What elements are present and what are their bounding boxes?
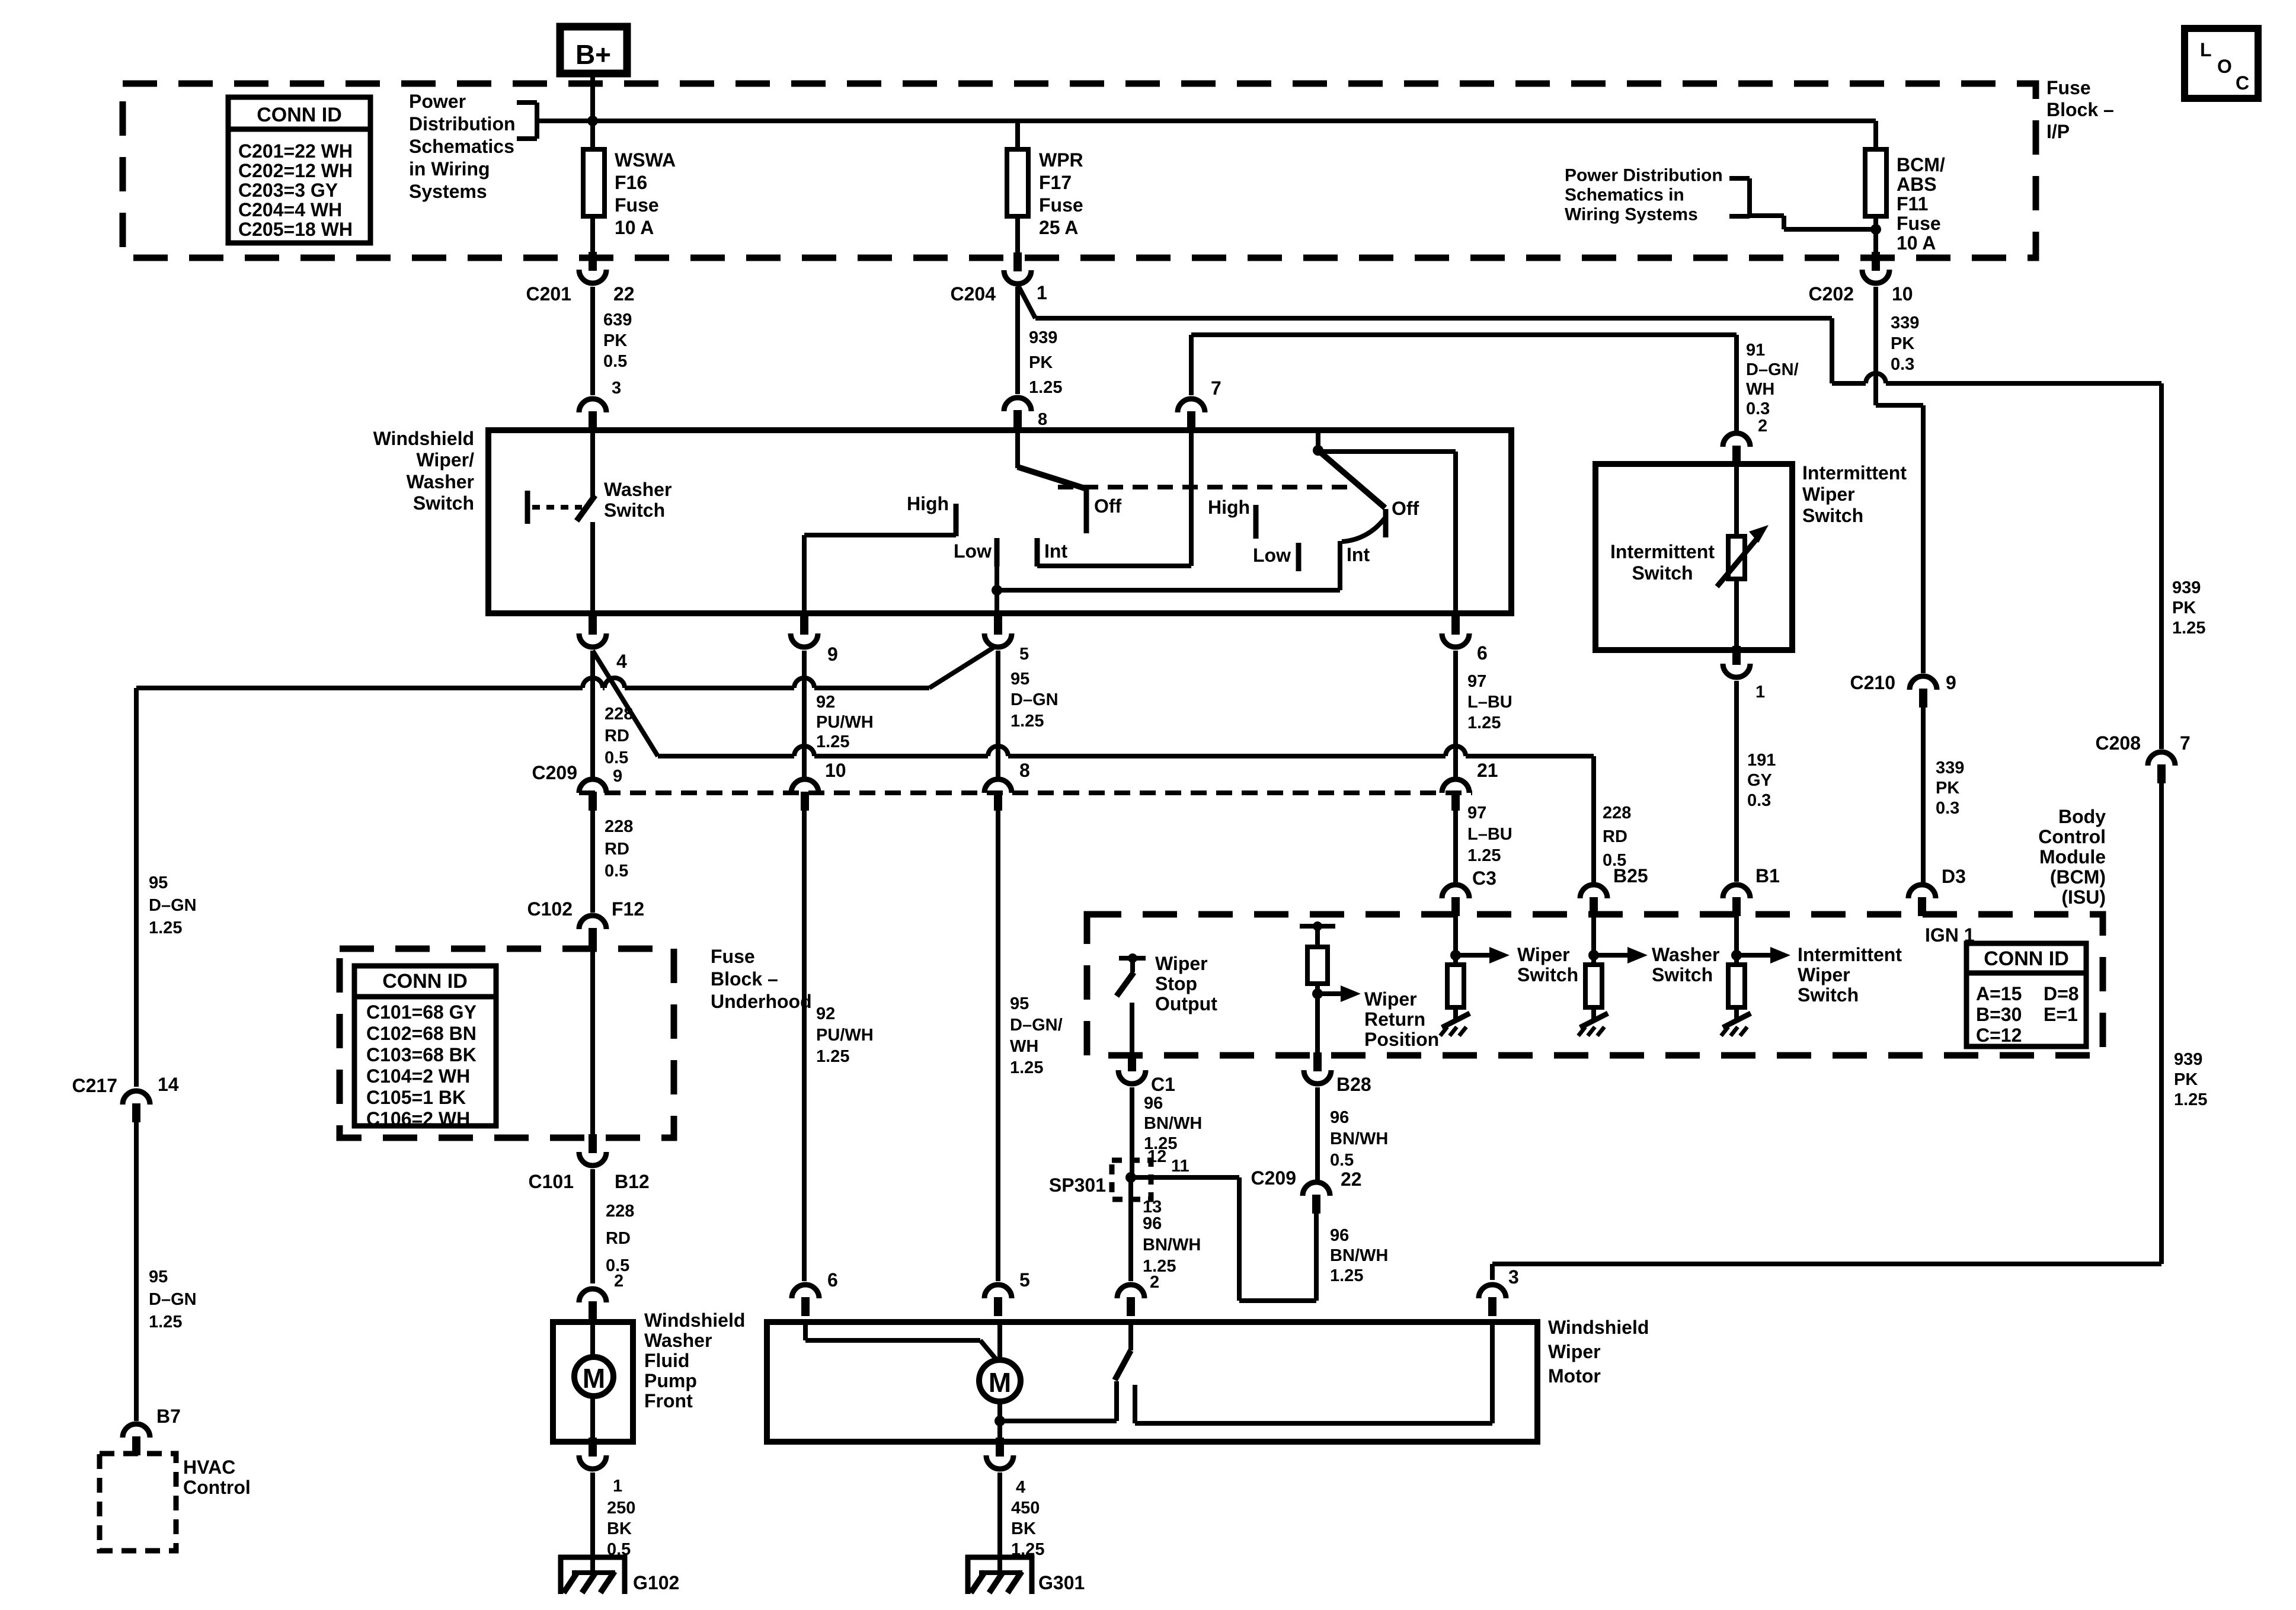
- svg-text:Fuse: Fuse: [2046, 77, 2091, 98]
- wire 939 PK branch to right side: [1018, 286, 2161, 383]
- svg-text:97: 97: [1467, 804, 1486, 822]
- label windshield washer fluid pump front: [644, 1310, 745, 1411]
- fuse F11 BCM/ABS: [1865, 121, 1945, 258]
- connector C101 pin B12: [529, 1134, 650, 1192]
- svg-text:C=12: C=12: [1976, 1025, 2022, 1046]
- svg-text:191: 191: [1747, 751, 1776, 770]
- svg-text:D3: D3: [1942, 866, 1966, 887]
- svg-text:C104=2 WH: C104=2 WH: [366, 1065, 470, 1087]
- svg-text:B7: B7: [156, 1406, 181, 1427]
- connector C208 pin 7: [2096, 732, 2191, 783]
- svg-text:9: 9: [613, 767, 622, 786]
- windshield washer pump box: [553, 1322, 633, 1442]
- fuse F17 WPR: [1007, 121, 1083, 255]
- wire Low to pin 5: [994, 566, 999, 613]
- label power distribution note left: [409, 91, 516, 202]
- connector motor pin 2: [1117, 1273, 1159, 1316]
- svg-text:PK: PK: [1936, 779, 1959, 798]
- fuse block I/P dashed box: [123, 84, 2036, 258]
- svg-text:97: 97: [1467, 672, 1486, 691]
- node motor junction: [994, 1416, 1005, 1426]
- svg-text:939: 939: [2172, 578, 2201, 597]
- intermittent wiper switch box: [1595, 464, 1792, 650]
- svg-text:6: 6: [1477, 642, 1488, 664]
- svg-text:95: 95: [1010, 994, 1029, 1013]
- wire 450 BK 1.25: [1000, 1473, 1044, 1573]
- svg-text:10: 10: [825, 760, 846, 781]
- svg-text:0.5: 0.5: [603, 352, 627, 371]
- wire right switch common: [1316, 430, 1320, 452]
- svg-text:Control: Control: [183, 1477, 251, 1498]
- svg-text:Schematics: Schematics: [409, 136, 514, 157]
- svg-text:Front: Front: [644, 1390, 693, 1411]
- svg-text:C209: C209: [1251, 1167, 1297, 1189]
- left Int contact: [1037, 538, 1067, 566]
- connector motor pin 6: [792, 811, 874, 1316]
- connector C209 pin 22: [1251, 1167, 1362, 1214]
- svg-text:21: 21: [1477, 760, 1498, 781]
- svg-text:Windshield: Windshield: [1548, 1317, 1649, 1338]
- svg-text:F12: F12: [612, 898, 644, 920]
- svg-text:95: 95: [149, 1267, 168, 1286]
- wire main power bus: [593, 119, 1876, 123]
- wire 939 PK 1.25 right side upper: [2161, 383, 2205, 749]
- connector switch pin 3: [579, 399, 606, 430]
- wire 228 RD 0.5 down: [593, 651, 633, 786]
- svg-text:Switch: Switch: [1652, 964, 1713, 985]
- svg-text:M: M: [583, 1363, 605, 1394]
- svg-text:1.25: 1.25: [1467, 846, 1501, 865]
- svg-text:1.25: 1.25: [1143, 1257, 1176, 1276]
- svg-text:92: 92: [816, 1004, 835, 1023]
- svg-text:Switch: Switch: [1632, 562, 1693, 584]
- wire 639 PK 0.5: [593, 287, 632, 398]
- connector washer pump pin 1: [579, 1438, 622, 1496]
- CONN ID table BCM: [1966, 943, 2086, 1046]
- node junction at B+ bus: [587, 116, 598, 126]
- washer switch blade: [577, 495, 595, 521]
- svg-text:Fuse: Fuse: [1897, 213, 1941, 234]
- node splice SP301 junction: [1125, 1172, 1136, 1183]
- svg-text:C1: C1: [1151, 1074, 1175, 1095]
- connector C209 pin 10: [791, 760, 846, 811]
- svg-text:Windshield: Windshield: [373, 428, 474, 449]
- wire splice to C209-22: [1131, 1177, 1316, 1301]
- svg-text:Distribution: Distribution: [409, 113, 516, 135]
- wire pin 7 to left Int: [1037, 430, 1191, 566]
- svg-text:O: O: [2217, 56, 2232, 77]
- svg-text:Fuse: Fuse: [711, 946, 755, 967]
- svg-text:C201=22 WH: C201=22 WH: [238, 140, 353, 162]
- svg-text:1.25: 1.25: [1011, 712, 1044, 731]
- svg-text:6: 6: [827, 1269, 838, 1291]
- wire bracket right to fuse F11: [1729, 178, 1876, 229]
- svg-text:F11: F11: [1897, 193, 1928, 215]
- svg-text:C102=68 BN: C102=68 BN: [366, 1023, 477, 1044]
- svg-text:Schematics in: Schematics in: [1565, 185, 1684, 205]
- svg-text:A=15: A=15: [1976, 983, 2022, 1004]
- svg-text:Wiring Systems: Wiring Systems: [1565, 205, 1698, 225]
- svg-text:91: 91: [1746, 341, 1765, 360]
- wire motor to pin 4: [997, 1401, 1002, 1438]
- svg-text:Body: Body: [2058, 806, 2106, 827]
- svg-text:5: 5: [1019, 1269, 1030, 1291]
- svg-text:C101: C101: [529, 1171, 574, 1192]
- svg-text:1.25: 1.25: [816, 732, 849, 751]
- connector IWS pin 1: [1723, 646, 1765, 702]
- washer switch input resistor: [1585, 916, 1719, 1019]
- svg-text:228: 228: [605, 817, 633, 836]
- wire through underhood fuse block: [590, 947, 595, 1135]
- wire BCM int wiper signal: [1191, 335, 1737, 399]
- left High contact: [907, 493, 956, 536]
- washer switch contacts: [590, 430, 595, 613]
- wire 96 BN/WH 1.25 from C1: [1132, 1087, 1202, 1179]
- label fuse block underhood: [711, 946, 812, 1012]
- motor washer pump: [574, 1320, 613, 1438]
- svg-text:Wiper: Wiper: [1798, 964, 1850, 985]
- connector B25: [1580, 804, 1648, 916]
- svg-text:CONN ID: CONN ID: [1984, 948, 2069, 970]
- svg-text:Intermittent: Intermittent: [1802, 462, 1907, 484]
- svg-text:228: 228: [605, 705, 633, 724]
- connector C209 pin 8: [984, 760, 1030, 811]
- svg-text:D–GN: D–GN: [149, 896, 197, 915]
- svg-text:D–GN: D–GN: [149, 1290, 197, 1309]
- svg-text:1.25: 1.25: [1010, 1058, 1043, 1077]
- svg-text:Low: Low: [1253, 545, 1291, 566]
- svg-text:0.3: 0.3: [1891, 355, 1914, 374]
- svg-text:8: 8: [1038, 410, 1047, 429]
- arrow wiper return position: [1318, 985, 1439, 1050]
- svg-text:95: 95: [1011, 670, 1029, 689]
- right Int contact label: [1347, 544, 1370, 565]
- svg-text:Control: Control: [2038, 826, 2106, 847]
- svg-text:ABS: ABS: [1897, 174, 1937, 195]
- connector C209 pin 21: [1442, 760, 1498, 811]
- wire 939 PK 1.25 to pin 8: [1018, 287, 1062, 429]
- svg-text:Int: Int: [1044, 540, 1067, 562]
- svg-text:Washer: Washer: [604, 479, 671, 500]
- ground washer switch input: [1578, 1013, 1608, 1036]
- wire Low to right Int contact: [997, 541, 1340, 590]
- park switch blade: [1115, 1322, 1131, 1380]
- svg-text:4: 4: [616, 651, 627, 672]
- label HVAC control: [183, 1457, 251, 1498]
- label Fuse Block I/P: [2046, 77, 2114, 142]
- svg-text:Systems: Systems: [409, 181, 487, 202]
- svg-text:C102: C102: [527, 898, 573, 920]
- svg-text:Module: Module: [2039, 846, 2106, 868]
- svg-text:Switch: Switch: [1798, 984, 1859, 1006]
- svg-text:L–BU: L–BU: [1467, 693, 1512, 712]
- wiper return position switch: [1300, 921, 1335, 1054]
- svg-text:1: 1: [1037, 282, 1047, 303]
- intermittent wiper switch input resistor: [1728, 916, 1902, 1019]
- svg-text:L: L: [2200, 39, 2212, 60]
- svg-text:Position: Position: [1364, 1029, 1439, 1050]
- connector motor pin 4: [986, 1438, 1025, 1497]
- svg-text:PK: PK: [2174, 1070, 2198, 1089]
- ground G301: [965, 1555, 1085, 1594]
- svg-text:B+: B+: [575, 39, 611, 70]
- svg-text:Off: Off: [1392, 498, 1419, 519]
- svg-text:E=1: E=1: [2044, 1004, 2078, 1025]
- svg-text:Motor: Motor: [1548, 1365, 1601, 1387]
- svg-text:C101=68 GY: C101=68 GY: [366, 1001, 477, 1023]
- connector B28: [1304, 1052, 1371, 1095]
- svg-text:1.25: 1.25: [149, 1313, 182, 1331]
- splice SP301: [1049, 1160, 1151, 1199]
- wiper stop output switch: [1117, 953, 1217, 1054]
- svg-text:C105=1 BK: C105=1 BK: [366, 1087, 466, 1108]
- svg-text:Pump: Pump: [644, 1370, 697, 1391]
- svg-text:PU/WH: PU/WH: [816, 1026, 874, 1045]
- label intermittent switch: [1610, 541, 1715, 584]
- svg-text:RD: RD: [606, 1229, 631, 1248]
- svg-text:B28: B28: [1336, 1074, 1371, 1095]
- svg-text:Return: Return: [1364, 1009, 1425, 1030]
- svg-text:8: 8: [1019, 760, 1030, 781]
- wire High to pin 9: [804, 535, 956, 613]
- fuse block underhood dashed box: [340, 949, 674, 1138]
- svg-text:G102: G102: [633, 1572, 679, 1593]
- svg-text:PK: PK: [1029, 353, 1053, 372]
- svg-text:C210: C210: [1850, 672, 1896, 693]
- connector washer pump pin 2: [579, 1289, 606, 1320]
- connector C102 pin F12: [527, 811, 645, 947]
- connector switch pin 8: [1004, 398, 1031, 429]
- svg-text:WH: WH: [1746, 380, 1774, 399]
- svg-text:639: 639: [603, 311, 632, 329]
- washer switch actuator: [527, 491, 582, 524]
- svg-text:Block –: Block –: [2046, 99, 2114, 120]
- right mode switch blade: [1318, 450, 1385, 508]
- svg-text:BN/WH: BN/WH: [1330, 1129, 1388, 1148]
- svg-text:339: 339: [1936, 758, 1964, 777]
- svg-text:Wiper: Wiper: [1802, 484, 1855, 505]
- wire low-speed branch to C217: [136, 648, 993, 1087]
- connector C217 pin 14: [72, 1074, 179, 1122]
- svg-text:WH: WH: [1010, 1037, 1038, 1056]
- wire motor pin5 internal: [997, 1322, 1002, 1361]
- svg-text:22: 22: [613, 283, 635, 305]
- wire 95 D-GN 1.25 lower: [136, 1122, 197, 1421]
- connector C209 dashed line: [532, 762, 1473, 793]
- svg-text:Wiper: Wiper: [1517, 944, 1570, 965]
- svg-text:95: 95: [149, 873, 168, 892]
- svg-text:9: 9: [827, 644, 838, 665]
- wire 250 BK 0.5: [593, 1473, 635, 1573]
- svg-text:1.25: 1.25: [1330, 1266, 1363, 1285]
- wire bracket to power distribution note: [517, 103, 590, 139]
- svg-text:Washer: Washer: [1652, 944, 1719, 965]
- svg-text:0.5: 0.5: [605, 748, 628, 767]
- svg-text:WPR: WPR: [1039, 149, 1083, 171]
- body control module dashed box: [1087, 914, 2103, 1055]
- svg-text:228: 228: [1603, 804, 1631, 822]
- motor M wiper: [979, 1360, 1021, 1401]
- svg-text:11: 11: [1171, 1157, 1189, 1176]
- svg-text:High: High: [907, 493, 949, 514]
- svg-text:RD: RD: [605, 726, 629, 745]
- svg-text:0.5: 0.5: [605, 862, 628, 881]
- svg-text:GY: GY: [1747, 771, 1772, 790]
- wire 191 GY 0.3: [1737, 681, 1776, 882]
- svg-text:22: 22: [1341, 1169, 1362, 1190]
- wire pin4 branch diagonal: [593, 651, 658, 756]
- svg-text:96: 96: [1330, 1226, 1349, 1245]
- svg-text:2: 2: [614, 1272, 623, 1291]
- svg-text:Windshield: Windshield: [644, 1310, 745, 1331]
- svg-text:4: 4: [1016, 1478, 1025, 1497]
- svg-text:1.25: 1.25: [1029, 378, 1062, 397]
- svg-text:B12: B12: [615, 1171, 650, 1192]
- wiper switch input resistor: [1447, 916, 1578, 1019]
- svg-text:25 A: 25 A: [1039, 217, 1078, 238]
- svg-text:Power Distribution: Power Distribution: [1565, 166, 1723, 185]
- label windshield wiper motor: [1548, 1317, 1649, 1387]
- svg-text:Int: Int: [1347, 544, 1370, 565]
- svg-text:2: 2: [1758, 417, 1767, 436]
- LOC page reference box: [2185, 28, 2258, 98]
- node Low junction: [992, 585, 1002, 596]
- svg-text:939: 939: [2174, 1050, 2202, 1069]
- svg-text:7: 7: [2180, 732, 2191, 754]
- svg-text:Underhood: Underhood: [711, 991, 812, 1012]
- connector C202 pin 10: [1809, 252, 1913, 305]
- left Off contact: [1086, 488, 1122, 533]
- CONN ID table fuse block I/P: [228, 97, 370, 243]
- connector switch pin 7: [1178, 399, 1205, 430]
- wire 91 D-GN/WH 0.3: [1737, 335, 1799, 436]
- label 95 D-GN 1.25 upper: [149, 873, 197, 937]
- svg-text:96: 96: [1330, 1108, 1349, 1127]
- ground G102: [558, 1555, 679, 1594]
- svg-text:PK: PK: [1891, 334, 1914, 353]
- label 96 BN/WH 1.25 lower: [1330, 1226, 1388, 1285]
- svg-text:C201: C201: [526, 283, 572, 305]
- svg-text:Washer: Washer: [644, 1330, 712, 1351]
- svg-text:Switch: Switch: [1802, 505, 1863, 526]
- svg-text:Wiper: Wiper: [1548, 1341, 1601, 1362]
- wire switch pin8 common: [1015, 430, 1020, 468]
- svg-text:9: 9: [1946, 672, 1956, 693]
- svg-text:1.25: 1.25: [1467, 713, 1501, 732]
- svg-text:7: 7: [1211, 377, 1221, 399]
- svg-text:5: 5: [1019, 645, 1029, 664]
- connector switch pin 6: [1442, 616, 1488, 664]
- svg-text:Intermittent: Intermittent: [1798, 944, 1902, 965]
- label IGN 1: [1925, 924, 1975, 946]
- wire 92 PU/WH 1.25 upper: [804, 651, 874, 778]
- svg-text:3: 3: [1508, 1266, 1519, 1288]
- right Off contact: [1386, 498, 1419, 537]
- label intermittent wiper switch: [1802, 462, 1907, 526]
- label body control module: [2038, 806, 2106, 908]
- svg-text:Block –: Block –: [711, 968, 778, 990]
- svg-text:(ISU): (ISU): [2061, 886, 2106, 908]
- svg-text:1.25: 1.25: [149, 918, 182, 937]
- svg-text:1.25: 1.25: [2174, 1090, 2207, 1109]
- svg-text:Switch: Switch: [604, 500, 665, 521]
- ground intermittent wiper switch input: [1721, 1013, 1751, 1036]
- wire right common to pin 6: [1318, 452, 1456, 613]
- svg-text:Intermittent: Intermittent: [1610, 541, 1715, 562]
- wire B+ to fuse block bus: [590, 73, 595, 151]
- right Int travel curve: [1342, 518, 1385, 542]
- svg-text:D–GN: D–GN: [1011, 690, 1059, 709]
- svg-text:Switch: Switch: [1517, 964, 1578, 985]
- svg-text:C208: C208: [2096, 732, 2141, 754]
- connector motor pin 3: [1479, 1266, 1519, 1316]
- label washer switch: [604, 479, 671, 521]
- wire park switch right contact: [1135, 1322, 1492, 1423]
- svg-text:92: 92: [816, 693, 835, 712]
- left Low contact: [954, 538, 997, 566]
- svg-text:10: 10: [1892, 283, 1913, 305]
- left mode switch blade: [1018, 467, 1085, 488]
- svg-text:(BCM): (BCM): [2050, 866, 2106, 888]
- svg-text:1.25: 1.25: [2172, 619, 2205, 638]
- svg-text:HVAC: HVAC: [183, 1457, 235, 1478]
- connector C204 pin 1: [951, 252, 1047, 305]
- svg-text:B1: B1: [1755, 865, 1780, 886]
- svg-text:C217: C217: [72, 1075, 118, 1096]
- svg-text:0.5: 0.5: [1603, 851, 1626, 870]
- svg-text:High: High: [1208, 497, 1250, 518]
- svg-text:96: 96: [1143, 1214, 1162, 1233]
- connector switch pin 4: [579, 616, 627, 672]
- connector D3: [1908, 866, 1966, 916]
- svg-text:BK: BK: [607, 1519, 632, 1538]
- svg-text:C: C: [2236, 72, 2249, 94]
- svg-text:10 A: 10 A: [615, 217, 654, 238]
- svg-text:D–GN/: D–GN/: [1746, 360, 1799, 379]
- svg-text:in Wiring: in Wiring: [409, 158, 490, 180]
- node junction at fuse F11: [1870, 224, 1881, 235]
- svg-text:Washer: Washer: [407, 471, 474, 492]
- svg-text:C204: C204: [951, 283, 996, 305]
- wire 339 PK 0.3 lower: [1923, 708, 1964, 882]
- wire 96 BN/WH 1.25 to motor: [1131, 1177, 1201, 1280]
- connector IWS pin 2: [1723, 433, 1750, 465]
- svg-text:L–BU: L–BU: [1467, 825, 1512, 844]
- connector C210 pin 9: [1850, 672, 1956, 708]
- variable resistor intermittent switch: [1717, 464, 1769, 646]
- svg-text:BN/WH: BN/WH: [1144, 1114, 1202, 1133]
- CONN ID table underhood: [354, 966, 496, 1129]
- svg-text:F16: F16: [615, 172, 647, 193]
- svg-text:0.3: 0.3: [1936, 799, 1959, 818]
- svg-text:BK: BK: [1011, 1519, 1036, 1538]
- svg-text:RD: RD: [1603, 827, 1627, 846]
- svg-text:C203=3 GY: C203=3 GY: [238, 180, 338, 201]
- svg-text:BN/WH: BN/WH: [1330, 1246, 1388, 1265]
- svg-text:C3: C3: [1472, 868, 1496, 889]
- svg-text:G301: G301: [1038, 1572, 1085, 1593]
- svg-text:Fuse: Fuse: [1039, 194, 1083, 216]
- wire motor pin6 internal: [805, 1322, 996, 1359]
- svg-text:C106=2 WH: C106=2 WH: [366, 1108, 470, 1129]
- connector C1: [1118, 1052, 1175, 1095]
- svg-text:CONN ID: CONN ID: [257, 104, 342, 126]
- svg-text:C204=4 WH: C204=4 WH: [238, 199, 342, 220]
- node right switch junction: [1313, 445, 1323, 456]
- connector C3: [1442, 804, 1512, 916]
- svg-text:SP301: SP301: [1049, 1174, 1106, 1196]
- wire 96 BN/WH 0.5: [1318, 1087, 1388, 1180]
